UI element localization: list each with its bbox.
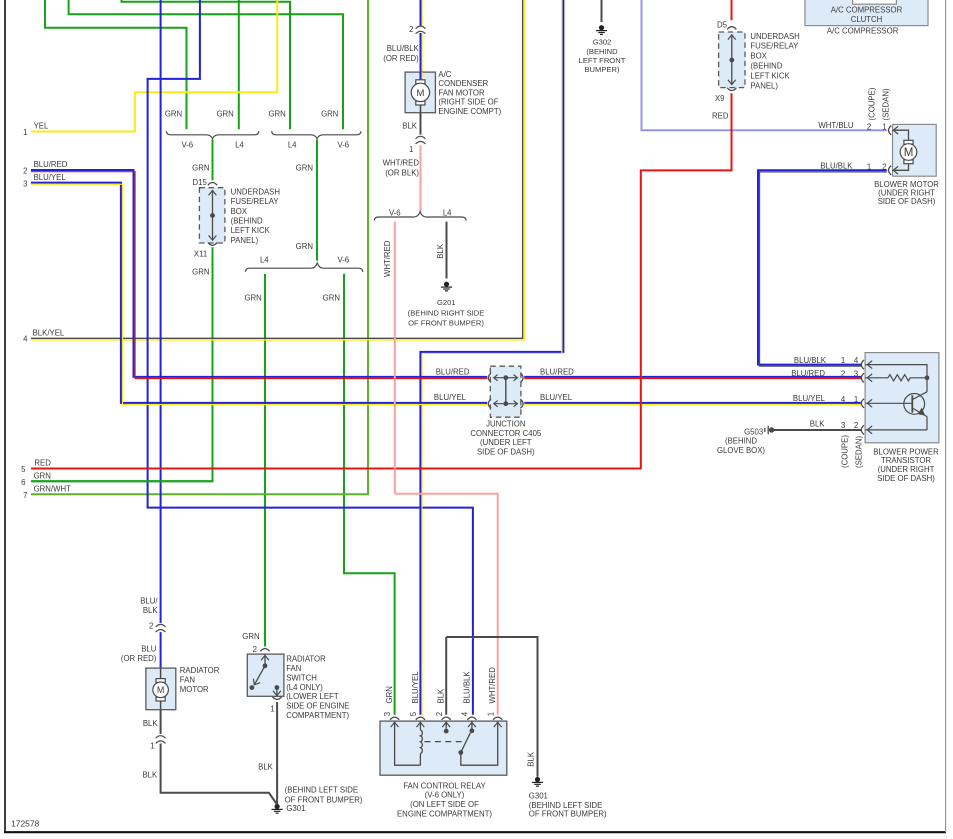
svg-text:1: 1	[841, 356, 845, 365]
svg-text:V-6: V-6	[337, 255, 349, 264]
svg-text:LEFT KICK: LEFT KICK	[231, 226, 271, 235]
svg-text:BLK: BLK	[142, 771, 158, 780]
svg-text:L4: L4	[288, 140, 297, 149]
svg-text:(COUPE): (COUPE)	[841, 435, 850, 468]
svg-text:SWITCH: SWITCH	[286, 673, 317, 682]
svg-text:L4: L4	[260, 255, 269, 264]
svg-text:(BEHIND RIGHT SIDE: (BEHIND RIGHT SIDE	[408, 308, 485, 317]
svg-text:V-6: V-6	[181, 140, 193, 149]
svg-text:(OR RED): (OR RED)	[121, 654, 157, 663]
svg-text:4: 4	[461, 711, 470, 716]
svg-text:BLU/RED: BLU/RED	[540, 367, 574, 376]
svg-text:BLK: BLK	[810, 420, 826, 429]
svg-text:UNDERDASH: UNDERDASH	[231, 187, 280, 196]
svg-text:2: 2	[409, 25, 413, 34]
svg-text:FAN: FAN	[286, 664, 301, 673]
svg-text:BLK: BLK	[402, 122, 418, 131]
svg-text:BLK: BLK	[527, 751, 536, 767]
svg-text:FAN: FAN	[180, 676, 195, 685]
svg-text:GRN: GRN	[192, 164, 209, 173]
svg-text:GRN: GRN	[323, 293, 340, 302]
svg-text:GRN/WHT: GRN/WHT	[34, 485, 71, 494]
svg-text:(OR RED): (OR RED)	[383, 54, 419, 63]
svg-text:RADIATOR: RADIATOR	[180, 666, 220, 675]
svg-text:GRN: GRN	[192, 267, 209, 276]
svg-text:GRN: GRN	[296, 242, 313, 251]
svg-text:BLK: BLK	[143, 606, 159, 615]
svg-text:BLU/BLK: BLU/BLK	[387, 44, 420, 53]
svg-text:BLOWER MOTOR: BLOWER MOTOR	[874, 180, 939, 189]
svg-text:BLU/: BLU/	[140, 596, 158, 605]
svg-text:BLU/YEL: BLU/YEL	[793, 394, 826, 403]
svg-text:(UNDER LEFT: (UNDER LEFT	[480, 438, 532, 447]
svg-text:MOTOR: MOTOR	[180, 685, 209, 694]
svg-text:GRN: GRN	[216, 109, 233, 118]
svg-text:(UNDER RIGHT: (UNDER RIGHT	[878, 465, 935, 474]
svg-text:GLOVE BOX): GLOVE BOX)	[717, 446, 765, 455]
svg-text:1: 1	[486, 712, 495, 716]
svg-text:G301: G301	[529, 792, 548, 801]
svg-text:3: 3	[383, 712, 392, 716]
svg-text:(BEHIND LEFT SIDE: (BEHIND LEFT SIDE	[285, 786, 359, 795]
svg-text:(UNDER RIGHT: (UNDER RIGHT	[878, 189, 935, 198]
svg-text:1: 1	[867, 163, 871, 172]
svg-text:X9: X9	[715, 94, 725, 103]
svg-text:FUSE/RELAY: FUSE/RELAY	[231, 197, 280, 206]
svg-text:BLU/BLK: BLU/BLK	[794, 356, 827, 365]
svg-text:FAN CONTROL RELAY: FAN CONTROL RELAY	[403, 781, 486, 790]
svg-text:L4: L4	[235, 140, 244, 149]
svg-text:1: 1	[854, 395, 858, 404]
svg-text:D5: D5	[717, 20, 728, 29]
svg-text:YEL: YEL	[34, 122, 49, 131]
svg-text:(SEDAN): (SEDAN)	[882, 88, 891, 120]
svg-text:172578: 172578	[11, 819, 40, 829]
svg-text:M: M	[904, 147, 914, 159]
svg-text:2: 2	[435, 712, 444, 716]
svg-text:PANEL): PANEL)	[231, 236, 259, 245]
svg-text:SIDE OF ENGINE: SIDE OF ENGINE	[286, 702, 349, 711]
svg-text:BLK: BLK	[143, 719, 159, 728]
svg-text:FUSE/RELAY: FUSE/RELAY	[750, 42, 799, 51]
svg-text:1: 1	[23, 128, 27, 137]
svg-text:A/C COMPRESSOR: A/C COMPRESSOR	[831, 5, 903, 14]
svg-text:V-6: V-6	[337, 140, 349, 149]
svg-text:(COUPE): (COUPE)	[867, 87, 876, 120]
svg-text:G201: G201	[437, 298, 456, 307]
svg-text:D15: D15	[192, 178, 207, 187]
svg-text:GRN: GRN	[244, 293, 261, 302]
svg-text:RED: RED	[34, 459, 51, 468]
svg-text:GRN: GRN	[296, 164, 313, 173]
svg-text:2: 2	[882, 163, 886, 172]
svg-text:BLK: BLK	[437, 688, 446, 704]
svg-text:2: 2	[854, 421, 858, 430]
svg-text:4: 4	[841, 395, 846, 404]
svg-text:(ON LEFT SIDE OF: (ON LEFT SIDE OF	[410, 800, 479, 809]
svg-text:SIDE OF DASH): SIDE OF DASH)	[877, 474, 935, 483]
svg-text:7: 7	[23, 491, 27, 500]
svg-text:GRN: GRN	[385, 686, 394, 703]
svg-text:A/C: A/C	[438, 70, 451, 79]
svg-text:5: 5	[21, 465, 26, 474]
svg-text:BLU/YEL: BLU/YEL	[411, 671, 420, 704]
svg-text:COMPARTMENT): COMPARTMENT)	[286, 711, 349, 720]
svg-text:BLU/YEL: BLU/YEL	[540, 393, 573, 402]
svg-text:BLU/BLK: BLU/BLK	[462, 671, 471, 704]
svg-text:RADIATOR: RADIATOR	[286, 654, 326, 663]
svg-text:ENGINE COMPT): ENGINE COMPT)	[438, 107, 501, 116]
svg-text:3: 3	[23, 180, 27, 189]
svg-text:BLU/YEL: BLU/YEL	[434, 393, 467, 402]
svg-text:M: M	[416, 88, 424, 99]
svg-text:BLOWER POWER: BLOWER POWER	[873, 447, 939, 456]
svg-text:3: 3	[841, 421, 845, 430]
svg-text:WHT/RED: WHT/RED	[383, 159, 420, 168]
svg-text:PANEL): PANEL)	[750, 81, 778, 90]
svg-text:2: 2	[23, 166, 27, 175]
svg-text:2: 2	[841, 369, 845, 378]
svg-text:1: 1	[150, 741, 154, 750]
svg-text:GRN: GRN	[242, 632, 259, 641]
svg-text:1: 1	[270, 705, 274, 714]
svg-text:GRN: GRN	[165, 109, 182, 118]
svg-text:GRN: GRN	[34, 472, 51, 481]
svg-text:1: 1	[409, 145, 413, 154]
svg-text:BOX: BOX	[231, 207, 248, 216]
svg-text:JUNCTION: JUNCTION	[486, 420, 525, 429]
svg-text:OF FRONT BUMPER): OF FRONT BUMPER)	[529, 810, 607, 819]
svg-text:CONNECTOR C405: CONNECTOR C405	[470, 429, 542, 438]
svg-text:SIDE OF DASH): SIDE OF DASH)	[477, 447, 535, 456]
svg-text:TRANSISTOR: TRANSISTOR	[881, 456, 931, 465]
svg-text:CLUTCH: CLUTCH	[851, 15, 883, 24]
svg-text:LEFT FRONT: LEFT FRONT	[579, 56, 626, 65]
svg-text:(BEHIND: (BEHIND	[586, 47, 618, 56]
svg-text:(BEHIND: (BEHIND	[725, 437, 757, 446]
svg-text:4: 4	[854, 356, 859, 365]
svg-text:BLU/RED: BLU/RED	[791, 369, 825, 378]
svg-text:A/C COMPRESSOR: A/C COMPRESSOR	[827, 27, 899, 36]
svg-text:G301: G301	[286, 804, 305, 813]
svg-text:G503: G503	[744, 427, 763, 436]
svg-text:6: 6	[21, 478, 25, 487]
svg-text:3: 3	[854, 369, 858, 378]
svg-text:GRN: GRN	[268, 109, 285, 118]
svg-text:1: 1	[882, 123, 886, 132]
svg-text:BLK/YEL: BLK/YEL	[33, 328, 65, 337]
svg-text:BOX: BOX	[750, 52, 767, 61]
svg-text:BLU/YEL: BLU/YEL	[34, 173, 67, 182]
svg-text:5: 5	[409, 711, 418, 716]
svg-text:2: 2	[253, 645, 257, 654]
svg-text:RED: RED	[712, 111, 729, 120]
svg-text:BLU/RED: BLU/RED	[34, 160, 68, 169]
svg-text:WHT/RED: WHT/RED	[383, 240, 392, 277]
svg-text:ENGINE COMPARTMENT): ENGINE COMPARTMENT)	[397, 810, 492, 819]
svg-text:4: 4	[23, 335, 28, 344]
svg-text:(BEHIND: (BEHIND	[750, 62, 782, 71]
svg-text:SIDE OF DASH): SIDE OF DASH)	[878, 197, 936, 206]
svg-text:LEFT KICK: LEFT KICK	[750, 71, 790, 80]
svg-text:(OR BLK): (OR BLK)	[385, 168, 419, 177]
svg-text:X11: X11	[194, 249, 207, 258]
svg-text:OF FRONT BUMPER): OF FRONT BUMPER)	[408, 319, 484, 328]
svg-text:(BEHIND: (BEHIND	[231, 217, 263, 226]
svg-text:WHT/BLU: WHT/BLU	[818, 121, 853, 130]
svg-text:FAN MOTOR: FAN MOTOR	[438, 88, 485, 97]
svg-text:M: M	[157, 685, 165, 695]
svg-text:BUMPER): BUMPER)	[584, 65, 619, 74]
svg-text:(SEDAN): (SEDAN)	[855, 436, 864, 468]
svg-text:BLK: BLK	[258, 762, 274, 771]
svg-text:GRN: GRN	[321, 109, 338, 118]
svg-text:(RIGHT SIDE OF: (RIGHT SIDE OF	[438, 98, 498, 107]
svg-text:2: 2	[867, 123, 871, 132]
svg-text:BLK: BLK	[436, 243, 445, 259]
svg-text:(LOWER LEFT: (LOWER LEFT	[286, 692, 339, 701]
svg-text:BLU/BLK: BLU/BLK	[820, 161, 853, 170]
svg-text:L4: L4	[443, 209, 452, 218]
svg-text:(V-6 ONLY): (V-6 ONLY)	[425, 791, 465, 800]
svg-text:(L4 ONLY): (L4 ONLY)	[286, 683, 323, 692]
svg-text:BLU/RED: BLU/RED	[436, 367, 470, 376]
svg-text:BLU: BLU	[141, 645, 157, 654]
svg-text:UNDERDASH: UNDERDASH	[750, 32, 799, 41]
svg-text:G302: G302	[593, 38, 612, 47]
svg-text:2: 2	[149, 622, 153, 631]
svg-text:CONDENSER: CONDENSER	[438, 79, 488, 88]
svg-text:V-6: V-6	[389, 209, 401, 218]
svg-text:WHT/RED: WHT/RED	[488, 667, 497, 704]
